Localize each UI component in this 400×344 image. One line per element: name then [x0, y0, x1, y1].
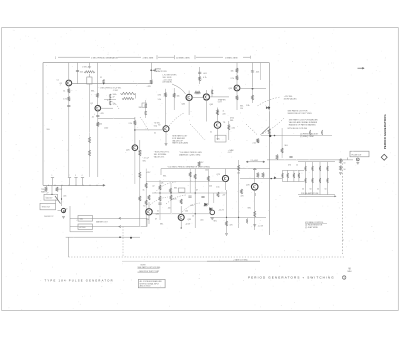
svg-text:-12.2V: -12.2V: [258, 226, 264, 228]
svg-text:L.R. NETWORK: L.R. NETWORK: [163, 75, 178, 77]
svg-text:Q35: Q35: [182, 103, 186, 105]
svg-text:x1: x1: [223, 111, 225, 113]
svg-text:NOTE: NOTE: [141, 264, 147, 266]
svg-text:SEL: SEL: [248, 208, 252, 210]
svg-text:Q95: Q95: [188, 219, 192, 221]
svg-text:.01: .01: [92, 117, 95, 119]
svg-text:PULSE OUT: PULSE OUT: [352, 154, 363, 156]
svg-text:SEL: SEL: [230, 120, 234, 122]
svg-text:+19V: +19V: [199, 162, 204, 164]
svg-text:(1) FILM RESISTOR: (1) FILM RESISTOR: [305, 225, 323, 227]
svg-text:2.4k: 2.4k: [253, 143, 256, 145]
svg-text:120: 120: [146, 219, 149, 221]
svg-text:+12V SEL: +12V SEL: [284, 96, 294, 98]
svg-text:*: *: [48, 94, 49, 96]
svg-text:+19V: +19V: [146, 172, 151, 174]
svg-text:Q45: Q45: [210, 104, 214, 106]
svg-text:150: 150: [240, 108, 243, 110]
svg-text:SEL: SEL: [214, 221, 217, 223]
svg-text:SEL: SEL: [285, 145, 288, 147]
svg-text:SEL 100Ω: SEL 100Ω: [163, 77, 172, 79]
svg-text:50Ω DIV: 50Ω DIV: [46, 197, 54, 199]
svg-text:50: 50: [302, 188, 304, 190]
svg-text:470: 470: [230, 225, 233, 227]
svg-text:PERIOD GENERATORS + SWITCHIN: PERIOD GENERATORS + SWITCHING: [248, 276, 335, 280]
svg-text:51: 51: [154, 133, 156, 135]
svg-text:Q55: Q55: [229, 88, 233, 90]
svg-text:12k: 12k: [161, 183, 164, 185]
svg-text:47: 47: [155, 219, 157, 221]
svg-text:4.7k: 4.7k: [203, 77, 207, 79]
svg-text:+19V: +19V: [147, 86, 152, 88]
svg-text:L140: L140: [104, 128, 108, 130]
svg-text:* ELECTROLYTIC: * ELECTROLYTIC: [154, 151, 170, 153]
svg-text:SEMICONDUCTOR TYPES: SEMICONDUCTOR TYPES: [288, 113, 313, 115]
svg-text:SEL: SEL: [143, 161, 146, 163]
svg-text:1.8k: 1.8k: [246, 105, 250, 107]
svg-text:TRIG OUT: TRIG OUT: [42, 207, 51, 209]
svg-text:.005: .005: [63, 196, 66, 198]
svg-text:50: 50: [325, 188, 327, 190]
svg-text:* 1 SEC PERIOD 47 µF SEL: * 1 SEC PERIOD 47 µF SEL: [99, 88, 122, 90]
svg-text:1k: 1k: [143, 190, 145, 192]
svg-text:50: 50: [317, 188, 319, 190]
svg-text:1k: 1k: [192, 216, 194, 218]
svg-text:(2) FREQ TRIM: (2) FREQ TRIM: [300, 136, 314, 138]
svg-text:SEL: SEL: [174, 188, 177, 190]
svg-text:2.2k: 2.2k: [129, 123, 133, 125]
svg-text:51: 51: [210, 132, 212, 134]
svg-text:100k: 100k: [113, 94, 117, 96]
svg-text:27: 27: [47, 192, 49, 194]
svg-text:.005: .005: [256, 72, 260, 74]
svg-text:4.7k: 4.7k: [63, 99, 67, 101]
svg-text:* 4.7 µF: * 4.7 µF: [143, 158, 150, 160]
svg-text:TD SEL: TD SEL: [154, 123, 160, 125]
svg-text:475k: 475k: [230, 118, 234, 120]
svg-text:51: 51: [100, 77, 102, 79]
svg-text:8.2k: 8.2k: [173, 199, 177, 201]
svg-text:.001: .001: [168, 208, 172, 210]
svg-text:2.5 µSEC: 2.5 µSEC: [251, 160, 259, 162]
svg-text:10k: 10k: [231, 71, 234, 73]
svg-text:1.5k: 1.5k: [158, 99, 162, 101]
svg-text:120: 120: [113, 104, 116, 106]
svg-text:1 MSEC GEN: 1 MSEC GEN: [225, 57, 238, 59]
svg-text:.02: .02: [152, 186, 155, 188]
svg-text:100: 100: [185, 211, 188, 213]
svg-text:220: 220: [223, 114, 226, 116]
svg-text:47: 47: [196, 190, 198, 192]
svg-text:2.7k: 2.7k: [231, 78, 235, 80]
svg-text:3.9k: 3.9k: [158, 95, 162, 97]
svg-text:.001: .001: [80, 72, 84, 74]
svg-text:-12.2V: -12.2V: [185, 224, 191, 226]
svg-text:200 MV P-P: 200 MV P-P: [44, 216, 54, 218]
svg-text:50: 50: [310, 188, 312, 190]
svg-text:SEL: SEL: [160, 224, 163, 226]
svg-text:SEL: SEL: [217, 139, 220, 141]
svg-text:.001: .001: [203, 73, 207, 75]
svg-text:10 MSEC GEN: 10 MSEC GEN: [176, 57, 190, 59]
svg-text:SEL: SEL: [47, 129, 50, 131]
svg-text:.1 SEC: .1 SEC: [113, 90, 119, 92]
svg-text:100: 100: [237, 173, 240, 175]
svg-text:.005: .005: [190, 205, 194, 207]
svg-text:51: 51: [157, 211, 159, 213]
svg-text:1k: 1k: [63, 91, 65, 93]
svg-text:* 100 NSEC PERIOD GEN: * 100 NSEC PERIOD GEN: [179, 152, 202, 154]
svg-text:50: 50: [344, 169, 346, 171]
svg-text:.001: .001: [200, 220, 204, 222]
svg-text:SEL: SEL: [204, 206, 208, 208]
svg-text:470: 470: [241, 196, 244, 198]
svg-text:Q75: Q75: [217, 174, 221, 176]
svg-text:4.3k: 4.3k: [232, 128, 235, 130]
svg-text:.1 SEC GEN: .1 SEC GEN: [142, 57, 154, 59]
svg-text:SEL: SEL: [91, 91, 94, 93]
svg-text:SEL: SEL: [240, 106, 244, 108]
svg-text:WITH BLUE OUTLINE: WITH BLUE OUTLINE: [288, 128, 308, 130]
svg-text:10k: 10k: [177, 96, 180, 98]
svg-text:1.5k: 1.5k: [216, 187, 220, 189]
svg-text:10k: 10k: [205, 170, 208, 172]
svg-text:+19V: +19V: [100, 113, 105, 115]
svg-text:-12.2V: -12.2V: [219, 210, 225, 212]
svg-text:220: 220: [209, 186, 212, 188]
svg-text:Q25: Q25: [126, 150, 130, 152]
svg-text:Q70: Q70: [246, 184, 250, 186]
svg-text:150: 150: [99, 124, 102, 126]
svg-text:+12.5 100k: +12.5 100k: [163, 79, 173, 81]
svg-text:PERIOD GENERATORS: PERIOD GENERATORS: [383, 114, 387, 149]
svg-text:330: 330: [139, 107, 142, 109]
svg-text:47: 47: [113, 97, 115, 99]
svg-text:C1: C1: [57, 80, 59, 82]
svg-text:470: 470: [288, 164, 291, 166]
svg-text:1k: 1k: [296, 164, 298, 166]
svg-text:SEL: SEL: [163, 176, 166, 178]
svg-text:50: 50: [344, 163, 346, 165]
